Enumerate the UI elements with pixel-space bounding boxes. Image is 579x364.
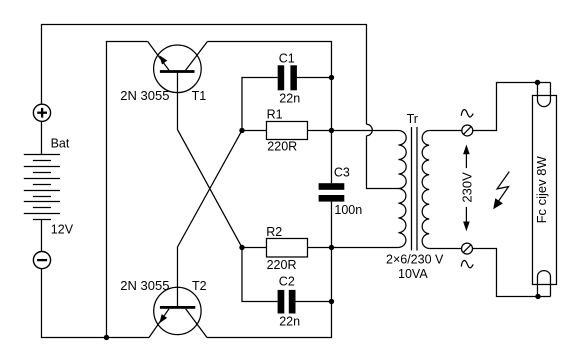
wire R2 right to primary bottom	[307, 246, 398, 248]
svg-text:T2: T2	[192, 279, 207, 293]
resistor R2	[266, 238, 307, 256]
junction node tube bottom	[535, 294, 540, 299]
svg-text:2N 3055: 2N 3055	[120, 278, 169, 293]
svg-text:230V: 230V	[459, 172, 474, 203]
tube top electrode	[537, 82, 550, 106]
svg-text:Bat: Bat	[51, 137, 70, 151]
transistor T1	[148, 41, 208, 92]
svg-text:10VA: 10VA	[398, 267, 428, 281]
capacitor C2	[278, 290, 296, 314]
lightning bolt arrow	[493, 172, 509, 210]
battery Bat cells	[24, 154, 60, 219]
AC squiggle top	[461, 110, 473, 117]
capacitor C1	[278, 65, 297, 90]
wire tap vertical to primary center tap	[366, 136, 398, 189]
transistor T2	[149, 287, 207, 337]
wire C2 branch left	[242, 247, 278, 301]
junction node C1 right	[329, 75, 334, 80]
wire hop over R1-primary wire	[366, 124, 372, 136]
wire T2 base to R1 node diagonal	[177, 130, 242, 306]
svg-text:R1: R1	[267, 107, 283, 121]
wire C2 right to node B	[296, 300, 332, 302]
tube bottom electrode	[537, 271, 550, 297]
terminal top (output)	[462, 125, 473, 136]
wire secondary bottom to terminal	[429, 247, 461, 249]
voltage arrow down	[465, 207, 467, 222]
svg-text:100n: 100n	[334, 203, 362, 217]
junction node R2 right	[329, 245, 334, 250]
wire T1 base to R2 node diagonal	[177, 73, 242, 248]
svg-text:2N 3055: 2N 3055	[120, 88, 169, 103]
junction node R1 right	[329, 128, 334, 133]
junction node bottom rail	[104, 335, 109, 340]
AC squiggle bottom	[461, 260, 473, 267]
wire battery bottom cell to minus circle	[40, 219, 42, 251]
wire left inner rail (T1 emitter to bottom)	[106, 41, 147, 337]
svg-text:220R: 220R	[267, 139, 297, 153]
transformer secondary winding	[422, 130, 429, 248]
svg-text:Tr: Tr	[407, 112, 418, 126]
svg-text:C2: C2	[279, 275, 295, 289]
svg-text:Fc cijev 8W: Fc cijev 8W	[534, 155, 549, 223]
wire node B rail C3 to T2 collector	[207, 202, 331, 338]
svg-text:2×6/230 V: 2×6/230 V	[386, 253, 444, 267]
svg-text:12V: 12V	[51, 223, 74, 237]
junction node C2 right	[329, 299, 334, 304]
wire bottom terminal to tube bottom	[473, 248, 551, 296]
voltage arrow up	[465, 154, 467, 169]
transformer core lines	[411, 127, 417, 251]
fluorescent tube Fc cijev 8W body	[532, 95, 556, 284]
wire C1 branch left	[242, 77, 278, 130]
wire secondary top to terminal	[429, 129, 462, 131]
wire top rail from battery + to transformer tap vertical	[41, 24, 366, 124]
wire T1 collector to node A rail	[207, 41, 331, 183]
junction node R2 left	[239, 245, 244, 250]
capacitor C3	[319, 183, 345, 201]
transformer Tr primary winding upper half	[398, 130, 406, 188]
transformer Tr primary winding lower half	[398, 188, 406, 247]
svg-text:22n: 22n	[279, 91, 300, 105]
wire R1 right to primary top	[307, 129, 398, 131]
svg-text:C1: C1	[279, 52, 295, 66]
terminal bottom (output)	[462, 243, 473, 254]
wire battery plus to top cell	[40, 122, 42, 155]
wire R1 left	[242, 129, 267, 131]
battery minus terminal	[33, 252, 50, 269]
junction node R1 left	[239, 128, 244, 133]
svg-text:C3: C3	[334, 166, 350, 180]
resistor R1	[266, 121, 307, 139]
wire C1 right to node A	[297, 76, 332, 78]
wire R2 left	[242, 246, 267, 248]
svg-text:R2: R2	[266, 225, 282, 239]
svg-text:T1: T1	[192, 89, 207, 103]
wire top terminal to tube top	[473, 82, 551, 130]
wire battery minus to bottom rail	[41, 269, 149, 338]
svg-text:22n: 22n	[279, 314, 300, 328]
battery plus terminal	[33, 104, 50, 121]
svg-text:220R: 220R	[267, 258, 297, 272]
junction node tube top	[535, 80, 540, 85]
